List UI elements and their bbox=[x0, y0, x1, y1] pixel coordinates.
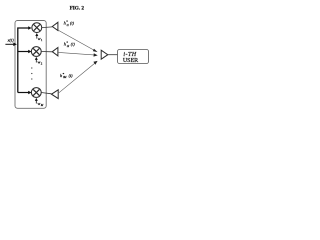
channel ray from A1 to receiver bbox=[58, 30, 97, 52]
svg-text:USER: USER bbox=[123, 58, 138, 64]
weight label wM bbox=[38, 101, 44, 107]
multiplier M1 (circle with X) bbox=[32, 23, 42, 33]
wire M3 to antenna A3 bbox=[41, 93, 51, 94]
svg-text:iM: iM bbox=[63, 75, 67, 79]
antenna A1 (left-pointing triangle) bbox=[52, 22, 58, 30]
channel label h*_i1(t) bbox=[64, 20, 75, 27]
svg-text:(t): (t) bbox=[70, 21, 75, 26]
channel ray from A2 to receiver bbox=[58, 52, 97, 56]
svg-text:FIG. 2: FIG. 2 bbox=[70, 6, 85, 12]
svg-text:(t): (t) bbox=[71, 42, 76, 47]
weight w2 arrow bbox=[35, 57, 38, 63]
weight wM arrow bbox=[35, 98, 38, 104]
svg-text:x(t): x(t) bbox=[7, 37, 15, 42]
branch arrow to multiplier M1 bbox=[28, 26, 31, 30]
svg-text:M: M bbox=[40, 103, 44, 107]
weight label w2 bbox=[38, 60, 43, 66]
multiplier M2 (circle with X) bbox=[31, 47, 41, 57]
branch wire to multiplier M2 bbox=[18, 50, 32, 54]
channel label h*_iM(t) bbox=[60, 72, 73, 79]
weight label w1 bbox=[38, 36, 43, 42]
channel label h*_i2(t) bbox=[64, 41, 76, 48]
multiplier M3 (circle with X) bbox=[31, 88, 41, 98]
bus wire (vertical distribution line) bbox=[18, 28, 29, 93]
splitter/weighting box bbox=[15, 21, 46, 109]
input label x(t) bbox=[7, 37, 15, 42]
wire receiver to user box bbox=[108, 54, 118, 56]
figure title FIG. 2 bbox=[70, 6, 85, 12]
svg-text:(t): (t) bbox=[69, 73, 74, 78]
wire M1 to antenna A1 bbox=[42, 26, 53, 29]
ellipsis dots between branches bbox=[31, 67, 32, 79]
branch wire to multiplier M3 bbox=[18, 91, 32, 95]
receive antenna (right-pointing triangle) bbox=[101, 50, 108, 59]
input arrow into bus bbox=[5, 43, 17, 47]
antenna A3 (left-pointing triangle) bbox=[52, 90, 59, 99]
wire M2 to antenna A2 bbox=[41, 51, 52, 53]
user box i-TH USER bbox=[118, 50, 149, 65]
weight w1 arrow bbox=[35, 33, 38, 39]
antenna A2 (left-pointing triangle) bbox=[52, 48, 58, 56]
channel ray from A3 to receiver bbox=[59, 61, 98, 93]
